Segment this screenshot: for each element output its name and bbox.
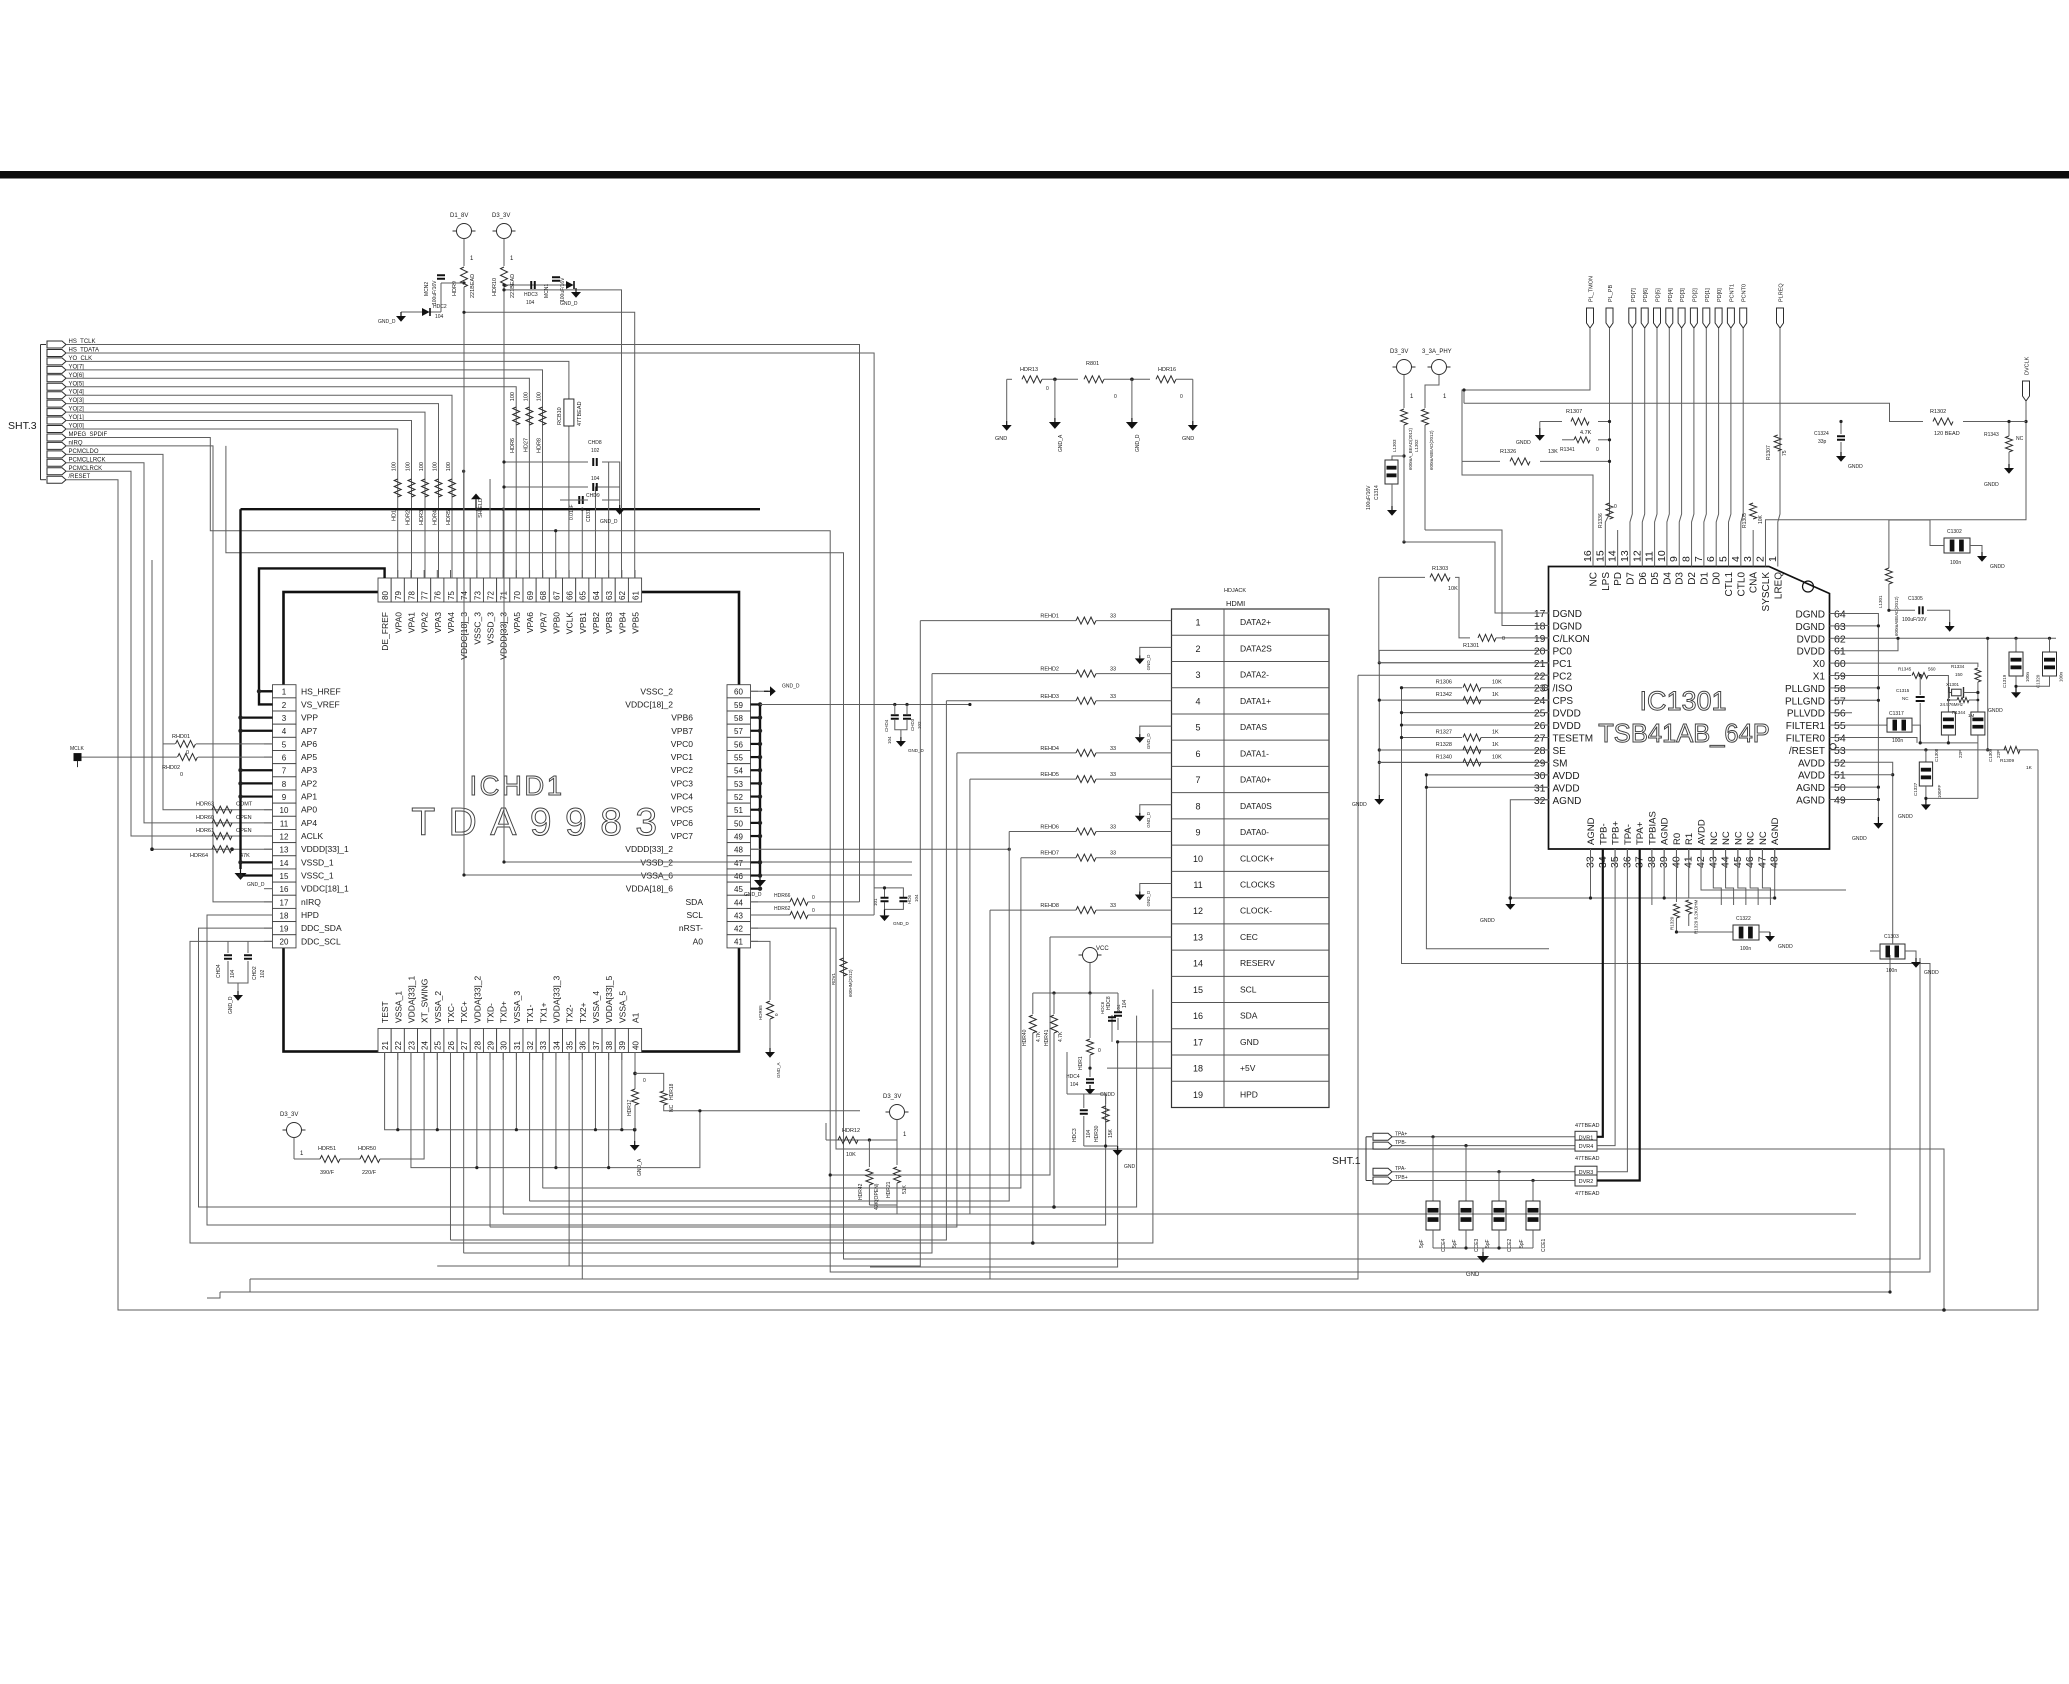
svg-text:15: 15	[1594, 550, 1606, 562]
svg-text:10: 10	[1193, 854, 1203, 864]
svg-text:63: 63	[605, 591, 614, 600]
svg-text:GND_D: GND_D	[908, 748, 925, 753]
svg-text:VPA5: VPA5	[512, 612, 522, 633]
svg-text:AVDD: AVDD	[1798, 758, 1825, 769]
svg-text:VPB7: VPB7	[671, 726, 693, 736]
svg-text:101: 101	[873, 898, 878, 906]
svg-text:TX1+: TX1+	[538, 1002, 548, 1023]
svg-text:REHD3: REHD3	[1040, 694, 1059, 700]
svg-text:1: 1	[903, 1132, 907, 1138]
svg-text:SHIELD: SHIELD	[478, 498, 484, 518]
svg-text:AGND: AGND	[1586, 817, 1597, 845]
svg-text:3: 3	[1742, 556, 1754, 562]
svg-text:19: 19	[280, 925, 289, 934]
svg-text:32: 32	[526, 1041, 535, 1050]
svg-text:9: 9	[1195, 828, 1200, 838]
svg-text:GNDD: GNDD	[1480, 918, 1495, 924]
svg-text:46: 46	[734, 872, 743, 881]
svg-text:221BEAD: 221BEAD	[510, 274, 516, 298]
svg-text:19: 19	[1534, 633, 1546, 645]
svg-text:C1315: C1315	[1896, 688, 1910, 693]
svg-text:VDDC[18]_1: VDDC[18]_1	[301, 884, 349, 894]
svg-text:GND_D: GND_D	[1146, 654, 1151, 671]
svg-text:21: 21	[381, 1041, 390, 1050]
svg-text:GND_D: GND_D	[1135, 434, 1141, 452]
svg-text:7: 7	[1693, 556, 1705, 562]
svg-text:C1319: C1319	[2002, 674, 2007, 688]
svg-text:2: 2	[282, 701, 287, 710]
svg-text:14: 14	[280, 859, 289, 868]
svg-text:104: 104	[435, 314, 444, 320]
svg-text:HDR62: HDR62	[774, 906, 791, 912]
svg-text:GNDD: GNDD	[1984, 482, 1999, 488]
svg-text:GND_D: GND_D	[893, 921, 910, 926]
svg-text:GNDD: GNDD	[1852, 836, 1867, 842]
svg-text:RHD01: RHD01	[172, 734, 190, 740]
svg-text:TXD+: TXD+	[499, 1001, 509, 1023]
svg-text:70: 70	[513, 591, 522, 600]
svg-text:7: 7	[1195, 775, 1200, 785]
svg-text:56: 56	[1834, 708, 1846, 720]
svg-text:57: 57	[1834, 695, 1846, 707]
svg-text:100: 100	[419, 462, 425, 471]
svg-text:GND_D: GND_D	[560, 301, 578, 307]
svg-text:HDR41: HDR41	[1044, 1029, 1050, 1046]
svg-text:47TBEAD: 47TBEAD	[577, 402, 583, 426]
svg-text:104: 104	[230, 969, 236, 978]
svg-text:VPC2: VPC2	[671, 765, 693, 775]
svg-text:REHD2: REHD2	[1040, 667, 1059, 673]
svg-text:8: 8	[1195, 801, 1200, 811]
svg-text:DVDD: DVDD	[1797, 634, 1825, 645]
svg-text:220/F: 220/F	[362, 1170, 377, 1176]
svg-text:CPS: CPS	[1553, 696, 1574, 707]
svg-text:19: 19	[1193, 1090, 1203, 1100]
svg-text:GND_D: GND_D	[1146, 811, 1151, 828]
svg-text:0: 0	[1046, 386, 1049, 392]
svg-text:PD[7]: PD[7]	[1631, 288, 1637, 302]
svg-text:R1326: R1326	[1500, 449, 1516, 455]
svg-text:600mA_BEAD(2012): 600mA_BEAD(2012)	[1408, 427, 1413, 470]
svg-text:0: 0	[1114, 394, 1117, 400]
svg-text:CHD3: CHD3	[910, 718, 915, 731]
svg-text:GND_A: GND_A	[637, 1158, 643, 1176]
svg-text:VPC3: VPC3	[671, 778, 693, 788]
svg-text:HDC3: HDC3	[524, 292, 538, 298]
svg-text:3: 3	[1195, 670, 1200, 680]
svg-text:VPA2: VPA2	[420, 612, 430, 633]
svg-text:VPA4: VPA4	[446, 612, 456, 633]
svg-text:TPB+: TPB+	[1611, 821, 1622, 845]
svg-text:48: 48	[734, 846, 743, 855]
svg-text:REHD7: REHD7	[1040, 851, 1059, 857]
svg-text:GND_D: GND_D	[600, 519, 618, 525]
svg-text:GND_A: GND_A	[1058, 434, 1064, 452]
svg-text:TEST: TEST	[380, 1001, 390, 1023]
svg-text:33: 33	[1110, 746, 1116, 752]
svg-text:76: 76	[434, 591, 443, 600]
svg-text:0: 0	[643, 1078, 646, 1084]
svg-text:SDA: SDA	[686, 897, 704, 907]
svg-text:HS_HREF: HS_HREF	[301, 686, 341, 696]
svg-text:100: 100	[406, 462, 412, 471]
svg-text:100: 100	[433, 462, 439, 471]
svg-text:104: 104	[1070, 1082, 1079, 1088]
svg-text:NC: NC	[669, 1104, 675, 1112]
svg-text:100n: 100n	[1950, 560, 1961, 566]
svg-text:R1: R1	[1684, 833, 1695, 845]
svg-text:HDR61: HDR61	[196, 828, 214, 834]
svg-text:100n: 100n	[2025, 671, 2030, 682]
svg-text:DE_FREF: DE_FREF	[380, 612, 390, 651]
svg-text:CHD2: CHD2	[252, 966, 258, 980]
svg-text:LPS: LPS	[1601, 572, 1612, 591]
svg-text:TSB41AB_64P: TSB41AB_64P	[1598, 720, 1770, 748]
svg-text:12: 12	[280, 832, 289, 841]
svg-text:HDR4: HDR4	[433, 510, 439, 525]
svg-text:50: 50	[734, 819, 743, 828]
svg-text:8: 8	[282, 780, 287, 789]
svg-text:35: 35	[566, 1041, 575, 1050]
svg-text:58: 58	[1834, 683, 1846, 695]
svg-text:33: 33	[1110, 903, 1116, 909]
svg-text:VPB2: VPB2	[591, 612, 601, 634]
svg-text:TPBIAS: TPBIAS	[1647, 811, 1658, 845]
svg-text:104: 104	[1086, 1129, 1092, 1138]
svg-text:HDR6: HDR6	[510, 438, 516, 453]
svg-text:18: 18	[280, 911, 289, 920]
svg-text:AVDD: AVDD	[1798, 771, 1825, 782]
svg-text:DVDD: DVDD	[1797, 647, 1825, 658]
svg-text:0: 0	[812, 895, 815, 901]
svg-text:7: 7	[282, 767, 287, 776]
svg-text:MCLK: MCLK	[70, 746, 85, 752]
svg-text:45: 45	[734, 885, 743, 894]
svg-text:D3_3V: D3_3V	[280, 1112, 298, 1118]
svg-text:PC2: PC2	[1553, 671, 1573, 682]
svg-text:CLOCKS: CLOCKS	[1240, 879, 1275, 889]
svg-text:80: 80	[381, 591, 390, 600]
svg-text:VSSC_1: VSSC_1	[301, 871, 334, 881]
svg-text:1: 1	[300, 1151, 304, 1157]
svg-text:1: 1	[1195, 618, 1200, 628]
svg-text:VPP: VPP	[301, 713, 318, 723]
svg-text:AGND: AGND	[1770, 817, 1781, 845]
svg-text:VSSA_6: VSSA_6	[641, 871, 673, 881]
svg-text:R1301: R1301	[1463, 643, 1479, 649]
svg-text:DGND: DGND	[1553, 609, 1582, 620]
svg-text:LREQ: LREQ	[1773, 572, 1784, 599]
svg-text:OPEN: OPEN	[236, 828, 252, 834]
svg-text:13: 13	[1619, 550, 1631, 562]
svg-text:CHD9: CHD9	[586, 493, 600, 499]
svg-text:DDC_SDA: DDC_SDA	[301, 923, 342, 933]
svg-text:DVR4: DVR4	[1579, 1144, 1594, 1150]
svg-text:PC1: PC1	[1553, 659, 1573, 670]
svg-text:HDJACK: HDJACK	[1224, 588, 1246, 594]
svg-text:73: 73	[473, 591, 482, 600]
svg-text:33: 33	[1110, 772, 1116, 778]
svg-text:RESERV: RESERV	[1240, 958, 1275, 968]
svg-text:nIRQ: nIRQ	[301, 897, 321, 907]
svg-text:52: 52	[734, 793, 743, 802]
svg-text:RCB10: RCB10	[557, 407, 563, 425]
svg-text:HD27: HD27	[523, 438, 529, 452]
svg-text:VDDA[18]_6: VDDA[18]_6	[626, 884, 674, 894]
svg-text:HDR13: HDR13	[1020, 367, 1038, 373]
svg-text:HDR2: HDR2	[406, 510, 412, 525]
svg-text:TX2-: TX2-	[565, 1004, 575, 1023]
svg-text:L1301: L1301	[1878, 595, 1883, 608]
svg-text:HDR65: HDR65	[758, 1005, 763, 1020]
svg-text:5: 5	[1718, 556, 1730, 562]
svg-text:FILTER0: FILTER0	[1786, 734, 1826, 745]
svg-text:L1303: L1303	[1392, 439, 1397, 452]
svg-text:D4: D4	[1662, 572, 1673, 585]
svg-text:C1303: C1303	[1884, 934, 1899, 940]
svg-text:24: 24	[1534, 695, 1546, 707]
svg-text:100uF/10V: 100uF/10V	[1902, 617, 1927, 623]
svg-text:56: 56	[734, 740, 743, 749]
svg-text:10: 10	[1656, 550, 1668, 562]
svg-text:ACLK: ACLK	[301, 831, 324, 841]
svg-text:VPC1: VPC1	[671, 752, 693, 762]
svg-text:24: 24	[421, 1041, 430, 1050]
svg-text:12: 12	[1631, 550, 1643, 562]
svg-text:TPB-: TPB-	[1598, 823, 1609, 845]
svg-text:0: 0	[180, 772, 183, 778]
svg-text:CTL1: CTL1	[1724, 572, 1735, 597]
svg-text:CHD4: CHD4	[216, 964, 222, 978]
svg-text:390/F: 390/F	[320, 1170, 335, 1176]
svg-text:47TBEAD: 47TBEAD	[1575, 1191, 1599, 1197]
svg-text:8: 8	[1681, 556, 1693, 562]
svg-text:CHD4: CHD4	[884, 719, 889, 732]
svg-text:COMT: COMT	[236, 802, 253, 808]
svg-text:D5: D5	[1650, 572, 1661, 585]
svg-text:CTL0: CTL0	[1736, 572, 1747, 597]
svg-text:HDR51: HDR51	[318, 1146, 336, 1152]
svg-text:R1307: R1307	[1566, 409, 1582, 415]
svg-text:47TBEAD: 47TBEAD	[1575, 1156, 1599, 1162]
svg-text:3_3A_PHY: 3_3A_PHY	[1422, 349, 1452, 355]
svg-text:17: 17	[1534, 608, 1546, 620]
svg-text:GND: GND	[1124, 1164, 1136, 1170]
svg-text:HDR12: HDR12	[842, 1128, 860, 1134]
svg-text:C1317: C1317	[1889, 711, 1904, 717]
svg-text:PCNT0: PCNT0	[1742, 284, 1748, 302]
svg-text:HDR64: HDR64	[190, 853, 208, 859]
svg-text:VSSA_3: VSSA_3	[512, 991, 522, 1023]
svg-text:HDR18: HDR18	[669, 1083, 675, 1100]
svg-text:VDDD[33]_2: VDDD[33]_2	[625, 844, 673, 854]
svg-text:33: 33	[1110, 667, 1116, 673]
svg-text:13K: 13K	[1548, 449, 1558, 455]
svg-text:A0: A0	[693, 936, 704, 946]
svg-text:VDDA[33]_2: VDDA[33]_2	[472, 975, 482, 1023]
svg-text:TX2+: TX2+	[578, 1002, 588, 1023]
svg-text:C1324: C1324	[1814, 431, 1829, 437]
svg-text:HDC3: HDC3	[1072, 1128, 1078, 1142]
svg-text:4.7K: 4.7K	[1036, 1031, 1042, 1042]
svg-text:1: 1	[1443, 394, 1447, 400]
svg-text:104: 104	[887, 736, 892, 744]
svg-text:R1345: R1345	[1898, 667, 1912, 672]
svg-text:HDR30: HDR30	[1094, 1125, 1100, 1142]
svg-text:1: 1	[1767, 556, 1779, 562]
svg-text:GND: GND	[1182, 436, 1194, 442]
svg-text:D3_3V: D3_3V	[883, 1094, 901, 1100]
svg-text:20: 20	[1534, 645, 1546, 657]
svg-text:600mABEAD(2012): 600mABEAD(2012)	[1894, 596, 1899, 636]
svg-text:R1329 8.2KOHM: R1329 8.2KOHM	[1694, 899, 1699, 934]
svg-text:PD[3]: PD[3]	[1680, 288, 1686, 302]
svg-text:62: 62	[618, 591, 627, 600]
svg-text:1K: 1K	[2026, 765, 2033, 771]
svg-text:AGND: AGND	[1553, 796, 1582, 807]
svg-text:AP2: AP2	[301, 778, 317, 788]
svg-text:100n: 100n	[1892, 738, 1903, 744]
svg-text:22P: 22P	[1958, 750, 1963, 758]
svg-text:OPEN: OPEN	[236, 815, 252, 821]
svg-text:TX1-: TX1-	[525, 1004, 535, 1023]
svg-text:29: 29	[1534, 757, 1546, 769]
svg-text:R1342: R1342	[1436, 692, 1452, 698]
svg-text:1: 1	[470, 256, 474, 262]
svg-text:NC: NC	[1721, 831, 1732, 845]
svg-text:GND_D: GND_D	[1146, 733, 1151, 750]
svg-text:CD31: CD31	[586, 509, 592, 522]
svg-text:23: 23	[407, 1041, 416, 1050]
svg-text:22P: 22P	[1996, 750, 2001, 758]
svg-text:10K: 10K	[846, 1152, 856, 1158]
svg-text:104: 104	[526, 300, 535, 306]
svg-text:XT_SWING: XT_SWING	[420, 979, 430, 1023]
svg-text:15K: 15K	[1108, 1128, 1114, 1138]
svg-text:100PF: 100PF	[1937, 784, 1942, 798]
svg-text:SE: SE	[1553, 746, 1567, 757]
svg-text:SHT.3: SHT.3	[8, 420, 37, 432]
svg-text:SCL: SCL	[686, 910, 703, 920]
svg-text:GND_D: GND_D	[782, 683, 800, 689]
svg-text:VDDD[33]_1: VDDD[33]_1	[301, 844, 349, 854]
svg-text:17: 17	[1193, 1037, 1203, 1047]
svg-text:3: 3	[282, 714, 287, 723]
svg-text:HDR63: HDR63	[196, 802, 214, 808]
svg-text:NC: NC	[1589, 572, 1600, 586]
svg-text:VPC7: VPC7	[671, 831, 693, 841]
svg-text:33: 33	[539, 1041, 548, 1050]
svg-text:5pF: 5pF	[1419, 1239, 1425, 1248]
svg-text:PL_PB: PL_PB	[1608, 285, 1614, 302]
svg-text:6: 6	[1705, 556, 1717, 562]
svg-text:HDR60: HDR60	[196, 815, 214, 821]
svg-text:/ISO: /ISO	[1553, 684, 1573, 695]
svg-text:PD[0]: PD[0]	[1717, 288, 1723, 302]
svg-text:2: 2	[1754, 556, 1766, 562]
svg-text:PLLGND: PLLGND	[1785, 696, 1825, 707]
svg-text:55: 55	[1834, 720, 1846, 732]
svg-text:VSSA_2: VSSA_2	[433, 991, 443, 1023]
svg-text:AGND: AGND	[1796, 783, 1825, 794]
svg-text:VPB5: VPB5	[631, 612, 641, 634]
svg-text:1K: 1K	[1492, 730, 1499, 736]
svg-text:102: 102	[260, 969, 266, 978]
svg-text:100n: 100n	[2059, 671, 2064, 682]
svg-text:R1327: R1327	[1436, 730, 1452, 736]
svg-text:CCE2: CCE2	[1507, 1238, 1513, 1252]
svg-text:9: 9	[282, 793, 287, 802]
svg-text:CCE1: CCE1	[1541, 1238, 1547, 1252]
svg-text:VDDA[33]_5: VDDA[33]_5	[604, 975, 614, 1023]
svg-text:ICHD1: ICHD1	[469, 770, 564, 801]
svg-text:R1336: R1336	[1598, 513, 1604, 528]
svg-text:0: 0	[812, 908, 815, 914]
svg-text:GND_D: GND_D	[228, 996, 234, 1014]
svg-text:GND_D: GND_D	[247, 882, 265, 888]
svg-text:33: 33	[1110, 851, 1116, 857]
svg-text:VPA6: VPA6	[525, 612, 535, 633]
svg-text:64: 64	[1834, 609, 1846, 621]
svg-text:18: 18	[1534, 620, 1546, 632]
svg-text:D3_3V: D3_3V	[492, 213, 510, 219]
svg-text:R801: R801	[1086, 361, 1099, 367]
svg-text:DATA0S: DATA0S	[1240, 801, 1272, 811]
svg-text:DVDD: DVDD	[1553, 721, 1581, 732]
svg-text:GND: GND	[1240, 1037, 1259, 1047]
svg-text:HDR1: HDR1	[1078, 1056, 1084, 1070]
svg-text:68: 68	[539, 591, 548, 600]
svg-text:GND_D: GND_D	[1146, 890, 1151, 907]
svg-text:29: 29	[486, 1041, 495, 1050]
svg-text:33p: 33p	[1818, 439, 1827, 445]
svg-text:VPA7: VPA7	[538, 612, 548, 633]
svg-text:6: 6	[1195, 749, 1200, 759]
svg-text:VPC6: VPC6	[671, 818, 693, 828]
svg-text:55: 55	[734, 754, 743, 763]
svg-text:13: 13	[1193, 932, 1203, 942]
svg-text:16: 16	[280, 885, 289, 894]
svg-text:GNDD: GNDD	[1898, 814, 1913, 820]
svg-text:25: 25	[1534, 708, 1546, 720]
svg-text:33: 33	[1110, 614, 1116, 620]
svg-text:REHD8: REHD8	[1040, 903, 1059, 909]
svg-text:47K(OPEN): 47K(OPEN)	[874, 1183, 880, 1210]
svg-text:27: 27	[460, 1041, 469, 1050]
svg-text:D1_8V: D1_8V	[450, 213, 468, 219]
svg-text:TDA9983: TDA9983	[411, 801, 670, 844]
svg-text:40: 40	[631, 1041, 640, 1050]
svg-text:RHD02: RHD02	[162, 765, 180, 771]
svg-text:PLREQ: PLREQ	[1779, 283, 1785, 302]
svg-text:DGND: DGND	[1553, 621, 1582, 632]
svg-text:78: 78	[407, 591, 416, 600]
svg-text:AP5: AP5	[301, 752, 317, 762]
svg-text:R1305: R1305	[1742, 513, 1748, 528]
svg-text:VPC4: VPC4	[671, 792, 693, 802]
svg-text:GNDD: GNDD	[1924, 970, 1939, 976]
svg-text:VPB3: VPB3	[604, 612, 614, 634]
svg-text:11: 11	[1644, 551, 1656, 562]
svg-text:5pF: 5pF	[1519, 1239, 1525, 1248]
svg-text:AVDD: AVDD	[1553, 771, 1580, 782]
svg-text:0.01uF: 0.01uF	[569, 504, 575, 520]
svg-text:C1314: C1314	[1374, 485, 1380, 500]
svg-text:TXC+: TXC+	[459, 1001, 469, 1023]
svg-text:51K: 51K	[902, 1184, 908, 1194]
svg-text:221BEAD: 221BEAD	[470, 274, 476, 298]
svg-text:HDC8: HDC8	[1106, 996, 1112, 1010]
